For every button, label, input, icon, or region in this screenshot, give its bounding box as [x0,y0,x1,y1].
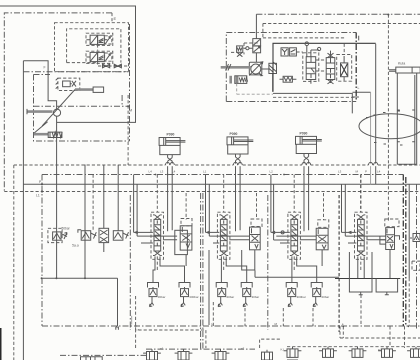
wire L port line [353,91,371,93]
hydraulic cylinder 2 [227,132,253,231]
wire pilot line x85 down [84,165,86,279]
group2 relief A bracket [216,283,227,288]
svg-text:E: E [114,16,117,21]
svg-text:300bar: 300bar [297,295,306,299]
pilot actuator thick bar [75,88,93,91]
group3 companion dashed box [318,220,329,228]
wire block bottom solid y93.4 [273,92,349,94]
pilot unit dash-dot box M1 [34,75,130,142]
node dot L1 [41,190,43,192]
bottom right dashed corner [260,339,280,348]
group3 down pipes [292,250,322,283]
svg-text:30bar: 30bar [158,295,166,299]
solenoid valve Y1 dashed box [86,33,113,45]
wire x352.3 port [349,93,359,113]
valve cut at right edge [410,234,420,242]
main control spool B [326,53,335,84]
svg-text:a1: a1 [160,347,164,351]
pilot valve 2 [78,230,96,241]
pilot unit inner dashed box [67,29,121,63]
group2 relief B bracket [241,283,252,288]
node dot a [41,277,43,279]
group4 companion valve [386,228,395,250]
tank box 2 group4 [376,279,398,295]
variable pump P1 [249,62,263,76]
scan edge black left [0,328,2,360]
wire long dashed vertical x388.4 [387,15,389,222]
pump unit dash-dot enclosure [226,33,356,102]
svg-text:L: L [358,86,360,90]
group1 companion dash drop [185,193,187,220]
section divider pair x200.6 x202.9 [201,193,203,349]
wire bus hops over pipes [166,164,170,167]
svg-text:L2: L2 [270,170,274,174]
pilot actuator body [93,87,104,92]
group3 relief A drain arrow [288,297,292,307]
group1 spool pilot cap bottom [153,251,162,256]
group4 companion dashed box [385,219,399,227]
main control spool A dashed envelope [303,53,319,82]
svg-text:Kula: Kula [398,62,405,66]
wire dashed x93.1 [92,175,94,231]
wire dashed x128.1 down [127,95,129,165]
svg-text:L4: L4 [172,170,176,174]
pilot unit outer dashed box [55,23,129,72]
group1 link arrow [134,231,153,233]
wire dashed bus y192.5 [4,191,420,193]
wire top-right dashed y23.5 [263,23,420,25]
svg-text:L3: L3 [338,170,342,174]
tank box 1 group4 [349,279,372,295]
damper valve [63,81,71,87]
solenoid pilot arrow Y2 [106,54,111,61]
group1 relief A bracket [148,283,159,288]
check circle group3 [281,231,284,234]
group2 feed wires [206,175,210,237]
group1 relief A valve [149,287,157,297]
group2 spool envelope [217,212,230,259]
pilot valve 4 [113,231,128,241]
svg-text:50bar: 50bar [62,227,71,231]
node dot x135.6 [135,325,137,327]
bottom dashed frame left [136,330,206,348]
wire pilot border dash-dot top-left [4,13,112,191]
svg-text:L1: L1 [203,170,207,174]
wire x255 vertical [242,250,255,277]
wire gray stub x131.7 [131,316,133,325]
wire block internals [307,46,331,84]
group1 down pipes [153,255,186,283]
wire solid from block corner down x375.7 [375,44,377,185]
wire dash-dot drop x42 [41,175,43,327]
bottom valve b3 [212,349,230,360]
svg-text:P090: P090 [230,132,238,136]
check valve pair top-left of block [281,48,296,56]
group3 relief B bracket [311,283,322,288]
wire tick x117.5 bottom [116,278,119,330]
svg-text:L4: L4 [149,170,153,174]
wire gray pair down to bus [370,92,372,184]
wire x349.4 x372 up [349,252,372,279]
group3 spool envelope [288,212,301,259]
svg-text:P: P [365,170,367,174]
pressure compensator small [237,46,243,57]
node dot P [41,183,43,185]
wire top-right dash-dot y14.3 [256,13,420,15]
section divider dashed x339.1 [338,195,340,332]
group1 feed wires [134,175,138,237]
lower pilot thick bar [34,133,48,136]
svg-text:M: M [129,109,132,113]
group3 relief B drain arrow [313,297,317,307]
svg-text:M: M [275,322,278,326]
group2 pilot dashed drop [223,175,225,273]
group1 relief A drain arrow [149,297,153,307]
group1 link lines [137,236,177,243]
cylinder Kula horizontal body [389,67,420,73]
rotary joint ellipse [359,114,420,139]
group3 companion dash drop [323,193,325,220]
solenoid valve Y2 dashed box [86,51,113,63]
bottom dash-dot collector [146,348,255,350]
svg-text:L4: L4 [377,170,381,174]
svg-text:L1: L1 [36,194,40,198]
orifice circle [246,47,249,50]
svg-text:L3: L3 [160,170,164,174]
wire dash-dot x122 [121,95,123,106]
group3 pilot dashed drop [293,175,295,273]
valve C dashed envelope [337,55,352,82]
group3 link lines [276,236,316,243]
pilot relief 50bar dashed box [48,228,62,242]
group4 spool envelope [355,212,368,259]
wire E supply top [0,6,136,122]
pilot unit dash-dot right edge [129,24,131,141]
group2 relief B drain arrow [243,297,247,307]
node P tick [358,36,360,41]
group3 relief A bracket [286,283,297,288]
wire pump to filter [262,69,273,92]
hydraulic cylinder 1 [159,133,185,232]
wire dash-dot bus y174.5 [42,174,403,176]
small relief lower-left of block [280,76,297,82]
bottom-left dash-dot stub [60,354,146,356]
bottom valve c4 [378,347,396,358]
section divider pair right x403.3 x405.8 [403,175,406,327]
group4 feed wires [342,184,346,236]
svg-text:20bar: 20bar [322,295,330,299]
svg-text:a.I: a.I [378,348,382,352]
wire x209 vertical [208,250,210,325]
orifice pair on pilot return [98,65,129,67]
solenoid pilot frame Y1 [105,36,112,44]
wire E drop to pilot box [111,13,113,23]
node dot b [55,277,57,279]
wire gray return dashes [237,83,273,94]
bottom valve b1 [143,349,161,360]
dashed box right upper [412,261,420,270]
joystick diagonal linkage [42,90,75,126]
pilot unit dash-dot bottom [24,71,129,73]
bottom valve c5 [407,347,420,358]
port ticks on ellipse [366,111,403,145]
svg-text:P090: P090 [300,132,308,136]
svg-text:P090: P090 [167,133,175,137]
solenoid valve dark C [341,56,348,81]
node bus junction dots [155,174,157,176]
svg-text:30bar: 30bar [252,295,260,299]
bottom valve b4 [262,350,273,360]
circle gauge 2 [318,47,321,50]
group4 spool [357,215,366,256]
node M junction dot [127,105,129,107]
wire dashed verticals to bottom rails [213,295,404,348]
group1 pilot dashed drop [156,175,158,273]
wire dashed x135.6 [135,296,137,330]
regulator valve square 2 [253,46,261,53]
shaft break marks [226,64,231,70]
svg-text:F: F [44,66,46,70]
node junction dot x388.4 [387,14,389,16]
wire solid y278.2 left [41,277,117,279]
svg-text:a2: a2 [241,347,245,351]
group2 spool [219,215,228,256]
wire compensator links [231,43,258,54]
group1 companion valve [175,226,192,255]
group3 link arrow [271,231,290,233]
svg-text:20bar: 20bar [227,295,235,299]
main control spool A [306,57,316,80]
group2 companion dashed box [251,219,262,227]
group1 relief B drain arrow [181,297,185,307]
group2 link arrow [206,231,220,233]
bottom right dashed rail 1 [340,326,420,338]
group2 down pipes [221,250,254,283]
bottom valve c1 [284,347,302,360]
group2 relief B valve [243,287,251,297]
wire line x103.8 [103,165,105,252]
regulator valve square 1 [253,39,261,46]
solenoid pilot arrow Y1 [106,37,111,44]
group1 relief B valve [181,287,189,297]
wire pilot line x56.6 down [56,116,58,278]
wire line x118 [117,165,119,231]
suction filter [269,62,277,74]
group3 companion valve [316,228,328,250]
group4 link arrow [342,231,357,233]
svg-text:a: a [138,328,140,332]
wire drop x256.4 [255,14,257,62]
svg-text:K.I: K.I [281,348,285,352]
group2 link lines [209,236,249,243]
group1 spool pilot cap top [153,215,162,220]
wire dash-dot into M junction [34,105,129,107]
joystick lever thick bar [28,110,53,113]
wire solid left vertical x23.4 [22,61,24,360]
wire block bottom dashed y97.3 [273,96,357,98]
bottom valve c2 [319,347,337,358]
enclosure solid box left [23,61,56,109]
group2 companion valve [250,227,261,250]
joystick pivot circle [53,109,60,116]
section divider x267.8 [267,195,269,330]
group1 spool body [154,219,161,251]
hydraulic cylinder 3 [296,132,322,232]
bottom valve c3 [349,347,367,358]
group3 relief A valve [288,287,296,297]
wire solid bus P y184.3 [23,183,420,185]
section divider x416.5 [416,185,418,331]
solenoid pilot frame Y2 [105,53,112,61]
solenoid valve Y2 [86,52,104,61]
lower pilot valve block [48,132,62,137]
gear pump aux [231,76,248,84]
group2 relief A drain arrow [218,297,222,307]
wire dashed y37.9 [263,37,345,39]
group2 relief A valve [218,287,226,297]
group4 companion feed [380,236,400,244]
group1 spool envelope [151,212,164,259]
thick dash-dot boundary x356.2 [355,33,357,102]
tank line y278.5 [335,278,400,280]
wire dash-dot bottom bus y326.3 [42,325,420,327]
section divider dash-dot x130.3 [129,195,131,330]
group3 feed wires [271,175,290,241]
wire drop x262.9 dashed [262,24,264,39]
damper valve dashed box [58,78,80,90]
bottom valve b2 [175,349,193,360]
pilot relief 50bar valve [53,232,67,240]
group4 pilot dashed heavy drop [360,175,362,213]
wire dashed drop x13.8 [13,165,15,360]
group4 down pipes [358,250,390,279]
svg-text:5a.a: 5a.a [72,244,79,248]
solenoid valve Y1 [86,35,107,44]
group1 relief B bracket [179,283,190,288]
svg-text:a: a [342,322,344,326]
group3 spool [290,215,299,256]
cylinder Kula vertical guide [397,73,416,164]
svg-text:300bar: 300bar [189,295,198,299]
bottom-left component box [81,357,103,360]
wire dashed bus T1 y165 [14,164,420,166]
pump shaft thick [221,66,251,69]
wire right edge x409.2 [408,184,410,278]
tank line y277.3 [255,276,339,278]
pilot shuttle 3 [99,228,109,242]
group1 companion dashed box [181,219,192,226]
group4 link lines [345,236,385,243]
svg-text:M: M [356,170,359,174]
lower linkage diagonal [34,122,48,134]
main block solid frame [273,43,376,91]
group3 relief B valve [313,287,321,297]
bottom right dashed rail 2 [287,346,420,348]
group2 companion dash drop [256,193,258,219]
node dot c [84,277,86,279]
circle gauge on block top [305,42,309,46]
